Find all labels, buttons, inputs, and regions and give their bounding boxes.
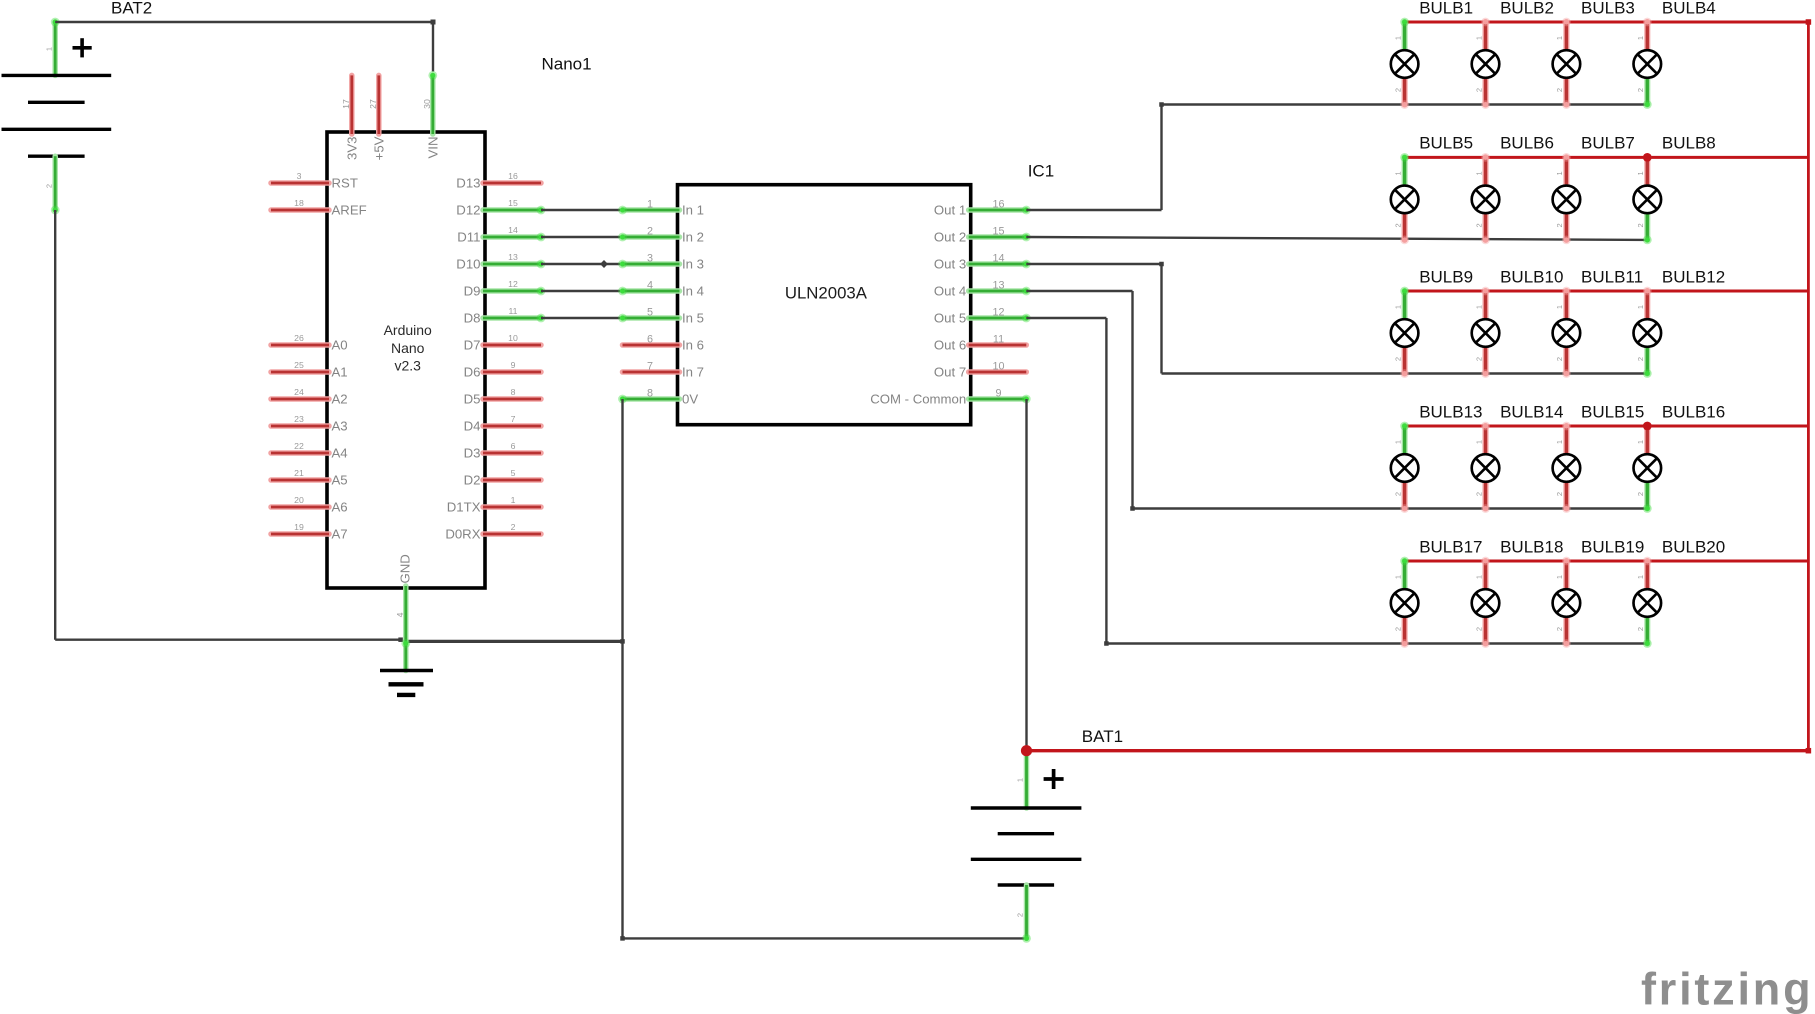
IC1 pin In 5 label [682,311,704,326]
svg-text:2: 2 [1393,223,1402,227]
Arduino pin D6 number [511,360,516,370]
Arduino pin D10 label [456,257,480,272]
wire Out2 to row2 [1026,237,1647,240]
svg-text:Nano: Nano [391,340,425,356]
svg-text:27: 27 [368,99,378,109]
svg-text:D11: D11 [457,230,480,245]
IC1 pin Out 1 number [992,199,1004,211]
svg-text:BULB7: BULB7 [1581,134,1635,153]
lamp BULB4 [1634,18,1662,109]
svg-text:1: 1 [1393,171,1402,175]
svg-text:In 2: In 2 [682,230,704,245]
svg-text:D4: D4 [464,419,481,434]
Arduino pin A6 [271,504,329,510]
Arduino pin A4 label [332,446,348,461]
Arduino pin A4 number [294,441,304,451]
svg-text:24: 24 [294,387,304,397]
svg-text:26: 26 [294,333,304,343]
svg-text:12: 12 [992,307,1004,319]
Arduino pin A2 [271,396,329,402]
lamp BULB8 label [1662,134,1716,153]
wire Out4 to row4 [1026,291,1647,511]
svg-text:A3: A3 [332,419,348,434]
svg-text:9: 9 [511,360,516,370]
svg-text:14: 14 [992,253,1004,265]
IC1 pin In 7 [623,369,680,375]
svg-text:11: 11 [508,306,517,316]
svg-text:1: 1 [1636,575,1645,579]
IC1 pin In 1 number [647,199,653,211]
Arduino pin D0RX number [511,522,516,532]
lamp BULB3 label [1581,0,1635,17]
svg-text:BULB4: BULB4 [1662,0,1716,17]
svg-text:2: 2 [511,522,516,532]
Arduino pin D11 [483,233,545,242]
IC1 pin Out 6 label [934,338,966,353]
IC1 pin Out 6 [969,342,1027,348]
svg-text:D2: D2 [464,473,481,488]
Arduino pin A7 number [294,522,304,532]
Arduino pin +5V [376,75,382,134]
Arduino pin D12 label [456,203,480,218]
svg-text:2: 2 [647,226,653,238]
svg-text:2: 2 [1636,357,1645,361]
wire BAT2+ to VIN [55,20,435,72]
svg-text:2: 2 [1474,223,1483,227]
IC ULN2003A title [785,284,868,303]
IC1 pin Out 7 [969,369,1027,375]
Arduino pin A2 label [332,392,348,407]
Arduino pin A5 [271,477,329,483]
IC1 pin COM - Common number [995,388,1001,400]
Arduino pin D2 [483,477,541,483]
svg-text:15: 15 [992,226,1004,238]
svg-text:BULB17: BULB17 [1419,537,1482,556]
svg-text:fritzing: fritzing [1641,964,1813,1014]
Arduino pin AREF number [294,198,304,208]
Arduino pin VIN [428,71,437,134]
Arduino pin D2 label [464,473,481,488]
svg-text:D13: D13 [456,176,480,191]
svg-text:BAT2: BAT2 [111,0,152,17]
wire Out3 to row3 [1026,262,1647,374]
Arduino pin GND label [397,554,412,583]
Arduino pin VIN label [425,137,440,159]
svg-text:25: 25 [294,360,304,370]
svg-text:1: 1 [1474,440,1483,444]
lamp BULB12 label [1662,267,1725,286]
svg-text:Nano1: Nano1 [542,55,592,74]
Arduino pin GND [401,586,410,671]
Arduino pin D8 [483,314,545,323]
svg-text:1: 1 [511,495,516,505]
svg-text:In 5: In 5 [682,311,704,326]
Arduino pin RST number [297,171,302,181]
svg-text:In 7: In 7 [682,365,704,380]
junction node BAT1+ [1021,745,1032,756]
svg-text:1: 1 [1555,305,1564,309]
Arduino pin D9 number [508,279,518,289]
IC1 pin In 4 [618,287,679,296]
svg-text:BULB20: BULB20 [1662,537,1725,556]
IC1 pin 0V number [647,388,653,400]
svg-text:6: 6 [647,334,653,346]
Arduino pin A6 label [332,500,348,515]
svg-text:11: 11 [993,334,1004,346]
lamp BULB8 [1634,153,1662,244]
Arduino pin D1TX number [511,495,516,505]
svg-text:BULB5: BULB5 [1419,134,1473,153]
Arduino pin D8 number [508,306,517,316]
svg-text:BULB10: BULB10 [1500,267,1563,286]
wire D11-In2 [541,236,623,238]
Arduino pin A7 [271,531,329,537]
IC1 pin Out 5 [969,314,1031,323]
svg-text:Out 1: Out 1 [934,203,966,218]
svg-text:2: 2 [1393,627,1402,631]
svg-text:1: 1 [1636,440,1645,444]
battery BAT1 pin 1 number [1016,778,1025,782]
lamp BULB20 [1634,557,1662,648]
IC1 pin Out 4 number [992,280,1004,292]
svg-text:D6: D6 [464,365,481,380]
Arduino pin D7 number [508,333,518,343]
lamp BULB19 label [1581,537,1644,556]
Arduino pin A2 number [294,387,304,397]
svg-text:1: 1 [1636,171,1645,175]
wire Out5 to row5 [1026,318,1647,646]
svg-text:Out 3: Out 3 [934,257,966,272]
svg-text:IC1: IC1 [1028,162,1054,181]
IC1 pin In 4 label [682,284,704,299]
IC1 pin In 5 number [647,307,653,319]
IC1 pin Out 1 label [934,203,966,218]
IC1 pin Out 3 [969,260,1031,269]
wire red bus row 5 [1405,560,1809,563]
IC1 pin Out 2 [969,233,1031,242]
svg-text:BULB19: BULB19 [1581,537,1644,556]
svg-text:19: 19 [294,522,304,532]
svg-text:2: 2 [1636,492,1645,496]
IC U IC1 label [1028,162,1054,181]
svg-text:6: 6 [511,441,516,451]
Arduino pin AREF label [332,203,367,218]
svg-text:30: 30 [422,99,432,109]
lamp BULB14 label [1500,402,1563,421]
svg-text:14: 14 [508,225,518,235]
svg-text:20: 20 [294,495,304,505]
Arduino pin D13 [483,180,541,186]
lamp BULB6 label [1500,134,1554,153]
svg-text:BULB3: BULB3 [1581,0,1635,17]
svg-text:10: 10 [992,361,1004,373]
svg-text:BULB12: BULB12 [1662,267,1725,286]
IC1 pin In 3 number [647,253,653,265]
svg-text:2: 2 [1636,627,1645,631]
lamp BULB6 [1472,153,1500,244]
lamp BULB18 label [1500,537,1563,556]
svg-text:1: 1 [1555,36,1564,40]
svg-text:Out 2: Out 2 [934,230,966,245]
battery BAT2 plates [2,75,112,156]
svg-text:D10: D10 [456,257,480,272]
svg-text:0V: 0V [682,392,698,407]
svg-text:13: 13 [992,280,1004,292]
lamp BULB2 [1472,18,1500,109]
Arduino pin D1TX label [447,500,481,515]
Arduino pin D0RX [483,531,541,537]
svg-text:2: 2 [1636,88,1645,92]
ground symbol GND1 [380,671,433,695]
svg-text:4: 4 [395,612,405,617]
svg-text:1: 1 [1636,305,1645,309]
lamp BULB10 label [1500,267,1563,286]
svg-text:22: 22 [294,441,304,451]
IC1 pin In 2 label [682,230,704,245]
battery BAT2 plus sign [73,38,92,57]
svg-text:BULB15: BULB15 [1581,402,1644,421]
IC1 pin In 7 label [682,365,704,380]
svg-text:2: 2 [1393,492,1402,496]
Arduino pin D3 label [464,446,481,461]
svg-text:10: 10 [508,333,518,343]
IC1 pin Out 6 number [993,334,1004,346]
Arduino pin D5 label [464,392,481,407]
lamp BULB11 [1553,287,1581,378]
Arduino pin D4 label [464,419,481,434]
battery BAT2 pin 1 number [45,47,54,51]
wire BAT1+ red [1027,748,1812,754]
wire red bus row 1 [1405,21,1809,24]
battery BAT2 pin 1 [51,18,60,76]
battery BAT1 plates [971,808,1082,885]
IC1 pin 0V [618,395,679,404]
Arduino pin D4 number [511,414,516,424]
lamp BULB16 label [1662,402,1725,421]
lamp BULB15 [1553,422,1581,513]
IC1 pin In 3 [618,260,679,269]
svg-text:Out 7: Out 7 [934,365,966,380]
wire main red vertical [1806,19,1812,750]
Arduino Nano U Nano1 label [542,55,592,74]
IC1 pin In 7 number [647,361,653,373]
svg-text:D7: D7 [464,338,481,353]
wire red bus row 4 [1405,425,1809,428]
lamp BULB13 label [1419,402,1482,421]
IC1 pin Out 5 number [992,307,1004,319]
Arduino pin +5V label [371,136,386,160]
IC1 pin In 5 [618,314,679,323]
svg-text:VIN: VIN [425,137,440,159]
svg-text:D8: D8 [464,311,481,326]
Arduino pin A0 label [332,338,348,353]
lamp BULB12 [1634,287,1662,378]
wire BAT2- to GND [55,637,403,642]
svg-text:1: 1 [1474,305,1483,309]
svg-text:2: 2 [1555,357,1564,361]
lamp BULB11 label [1581,267,1643,286]
lamp BULB7 label [1581,134,1635,153]
svg-text:4: 4 [647,280,653,292]
svg-text:Arduino: Arduino [384,322,432,338]
svg-text:Out 4: Out 4 [934,284,966,299]
wire GND to 0V net [403,639,625,644]
IC1 pin In 1 [618,206,679,215]
svg-text:BAT1: BAT1 [1082,727,1123,746]
lamp BULB1 [1391,18,1419,109]
lamp BULB15 label [1581,402,1644,421]
wire red bus row 3 [1405,290,1809,293]
IC1 pin In 6 label [682,338,704,353]
svg-text:BULB14: BULB14 [1500,402,1563,421]
junction node row4 bus [1643,422,1652,431]
svg-text:2: 2 [1555,492,1564,496]
svg-text:1: 1 [45,47,54,51]
svg-text:23: 23 [294,414,304,424]
svg-text:ULN2003A: ULN2003A [785,284,868,303]
Arduino pin RST label [332,176,358,191]
Arduino pin D3 [483,450,541,456]
Arduino pin D6 [483,369,541,375]
svg-text:2: 2 [1474,357,1483,361]
Arduino pin A6 number [294,495,304,505]
svg-text:2: 2 [1016,913,1025,917]
Arduino pin D10 number [508,252,518,262]
IC1 pin Out 5 label [934,311,966,326]
svg-text:1: 1 [1555,575,1564,579]
IC1 pin Out 3 label [934,257,966,272]
svg-text:1: 1 [1393,36,1402,40]
svg-text:5: 5 [647,307,653,319]
Arduino pin D7 label [464,338,481,353]
svg-text:D1TX: D1TX [447,500,481,515]
Arduino pin A0 [271,342,329,348]
svg-text:1: 1 [1555,171,1564,175]
svg-text:2: 2 [1636,223,1645,227]
Arduino pin D4 [483,423,541,429]
IC1 pin In 6 [623,342,680,348]
lamp BULB7 [1553,153,1581,244]
svg-text:BULB18: BULB18 [1500,537,1563,556]
lamp BULB2 label [1500,0,1554,17]
svg-text:D3: D3 [464,446,481,461]
svg-text:1: 1 [1474,36,1483,40]
lamp BULB10 [1472,287,1500,378]
battery BAT1 label [1082,727,1123,746]
svg-text:BULB16: BULB16 [1662,402,1725,421]
svg-text:8: 8 [511,387,516,397]
svg-text:A0: A0 [332,338,348,353]
lamp BULB17 [1391,557,1419,648]
svg-text:D12: D12 [456,203,480,218]
svg-text:In 4: In 4 [682,284,704,299]
svg-text:2: 2 [1474,627,1483,631]
Arduino pin D5 number [511,387,516,397]
svg-text:A5: A5 [332,473,348,488]
svg-text:1: 1 [1393,440,1402,444]
IC ULN2003A body [678,185,971,425]
battery BAT2 label [111,0,152,17]
wire red bus row 2 [1405,156,1809,159]
svg-text:5: 5 [511,468,516,478]
battery BAT1 pin 1 [1024,751,1030,808]
svg-text:In 1: In 1 [682,203,704,218]
Arduino pin A1 [271,369,329,375]
Arduino pin D9 [483,287,545,296]
Arduino pin D6 label [464,365,481,380]
svg-text:1: 1 [1636,36,1645,40]
svg-text:1: 1 [1016,778,1025,782]
lamp BULB13 [1391,422,1419,513]
battery BAT2 pin 2 [51,156,60,214]
battery BAT1 pin 2 [1022,885,1031,943]
svg-text:3: 3 [647,253,653,265]
IC1 pin Out 2 number [992,226,1004,238]
Arduino pin D9 label [464,284,481,299]
IC1 pin In 1 label [682,203,704,218]
svg-text:In 3: In 3 [682,257,704,272]
IC1 pin Out 7 number [992,361,1004,373]
Arduino pin A4 [271,450,329,456]
svg-text:BULB2: BULB2 [1500,0,1554,17]
Arduino pin A3 label [332,419,348,434]
svg-text:BULB8: BULB8 [1662,134,1716,153]
svg-text:12: 12 [508,279,518,289]
IC1 pin COM - Common label [870,392,966,407]
wire D12-In1 [541,209,623,211]
svg-text:BULB9: BULB9 [1419,267,1473,286]
svg-text:RST: RST [332,176,358,191]
lamp BULB19 [1553,557,1581,648]
Arduino pin A5 label [332,473,348,488]
IC1 pin In 4 number [647,280,653,292]
svg-text:BULB11: BULB11 [1581,267,1643,286]
Arduino pin D10 [483,260,545,269]
Arduino pin D12 number [508,198,518,208]
lamp BULB9 [1391,287,1419,378]
Arduino pin A1 label [332,365,348,380]
svg-text:2: 2 [1393,357,1402,361]
lamp BULB3 [1553,18,1581,109]
wire D10-In3 [541,260,623,268]
svg-text:3V3: 3V3 [344,137,359,160]
svg-text:D9: D9 [464,284,481,299]
Arduino pin D2 number [511,468,516,478]
Arduino pin A1 number [294,360,304,370]
IC1 pin Out 3 number [992,253,1004,265]
fritzing watermark [1641,964,1813,1014]
Arduino pin D0RX label [445,527,480,542]
lamp BULB1 label [1419,0,1473,17]
Arduino pin D1TX [483,504,541,510]
svg-text:7: 7 [511,414,516,424]
Arduino pin D8 label [464,311,481,326]
svg-text:16: 16 [992,199,1004,211]
Arduino pin A3 number [294,414,304,424]
svg-text:GND: GND [397,554,412,583]
Arduino pin RST [271,180,329,186]
svg-text:AREF: AREF [332,203,367,218]
junction node row2 bus [1643,153,1652,162]
Arduino pin D7 [483,342,541,348]
lamp BULB16 [1634,422,1662,513]
svg-text:21: 21 [294,468,304,478]
svg-text:BULB6: BULB6 [1500,134,1554,153]
Arduino pin D3 number [511,441,516,451]
svg-text:1: 1 [1393,575,1402,579]
svg-text:A4: A4 [332,446,348,461]
Arduino pin A0 number [294,333,304,343]
